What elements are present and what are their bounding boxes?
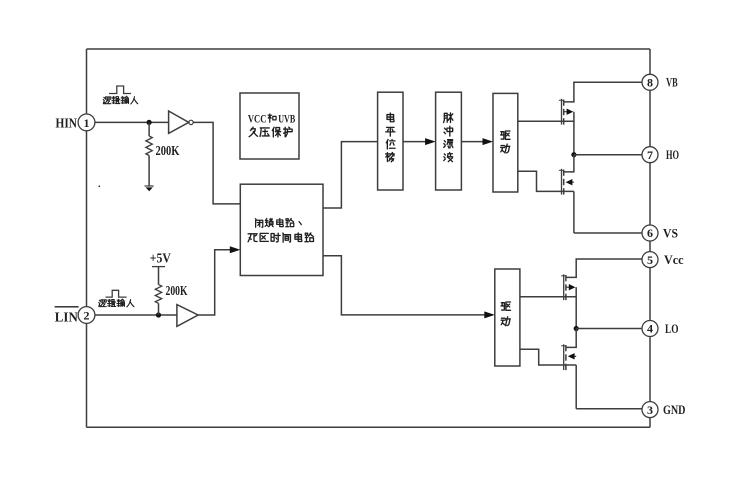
- svg-text:6: 6: [647, 226, 653, 240]
- svg-text:2: 2: [84, 308, 90, 322]
- svg-text:Vcc: Vcc: [664, 252, 684, 267]
- svg-text:200K: 200K: [156, 143, 180, 158]
- svg-text:GND: GND: [663, 402, 686, 417]
- svg-text:VS: VS: [663, 225, 678, 240]
- svg-text:5: 5: [647, 253, 653, 267]
- svg-text:+5V: +5V: [150, 251, 171, 266]
- svg-text:VCC: VCC: [248, 112, 267, 126]
- svg-text:8: 8: [647, 76, 653, 90]
- svg-text:LO: LO: [665, 321, 679, 336]
- svg-text:4: 4: [647, 322, 653, 336]
- svg-text:VB: VB: [666, 75, 678, 90]
- svg-text:UVB: UVB: [278, 112, 295, 126]
- svg-text:LIN: LIN: [55, 309, 78, 324]
- svg-text:7: 7: [647, 148, 653, 162]
- svg-text:3: 3: [647, 403, 653, 417]
- svg-text:1: 1: [84, 116, 90, 130]
- svg-text:HO: HO: [666, 147, 679, 162]
- svg-text:200K: 200K: [166, 283, 188, 298]
- svg-text:HIN: HIN: [56, 115, 78, 130]
